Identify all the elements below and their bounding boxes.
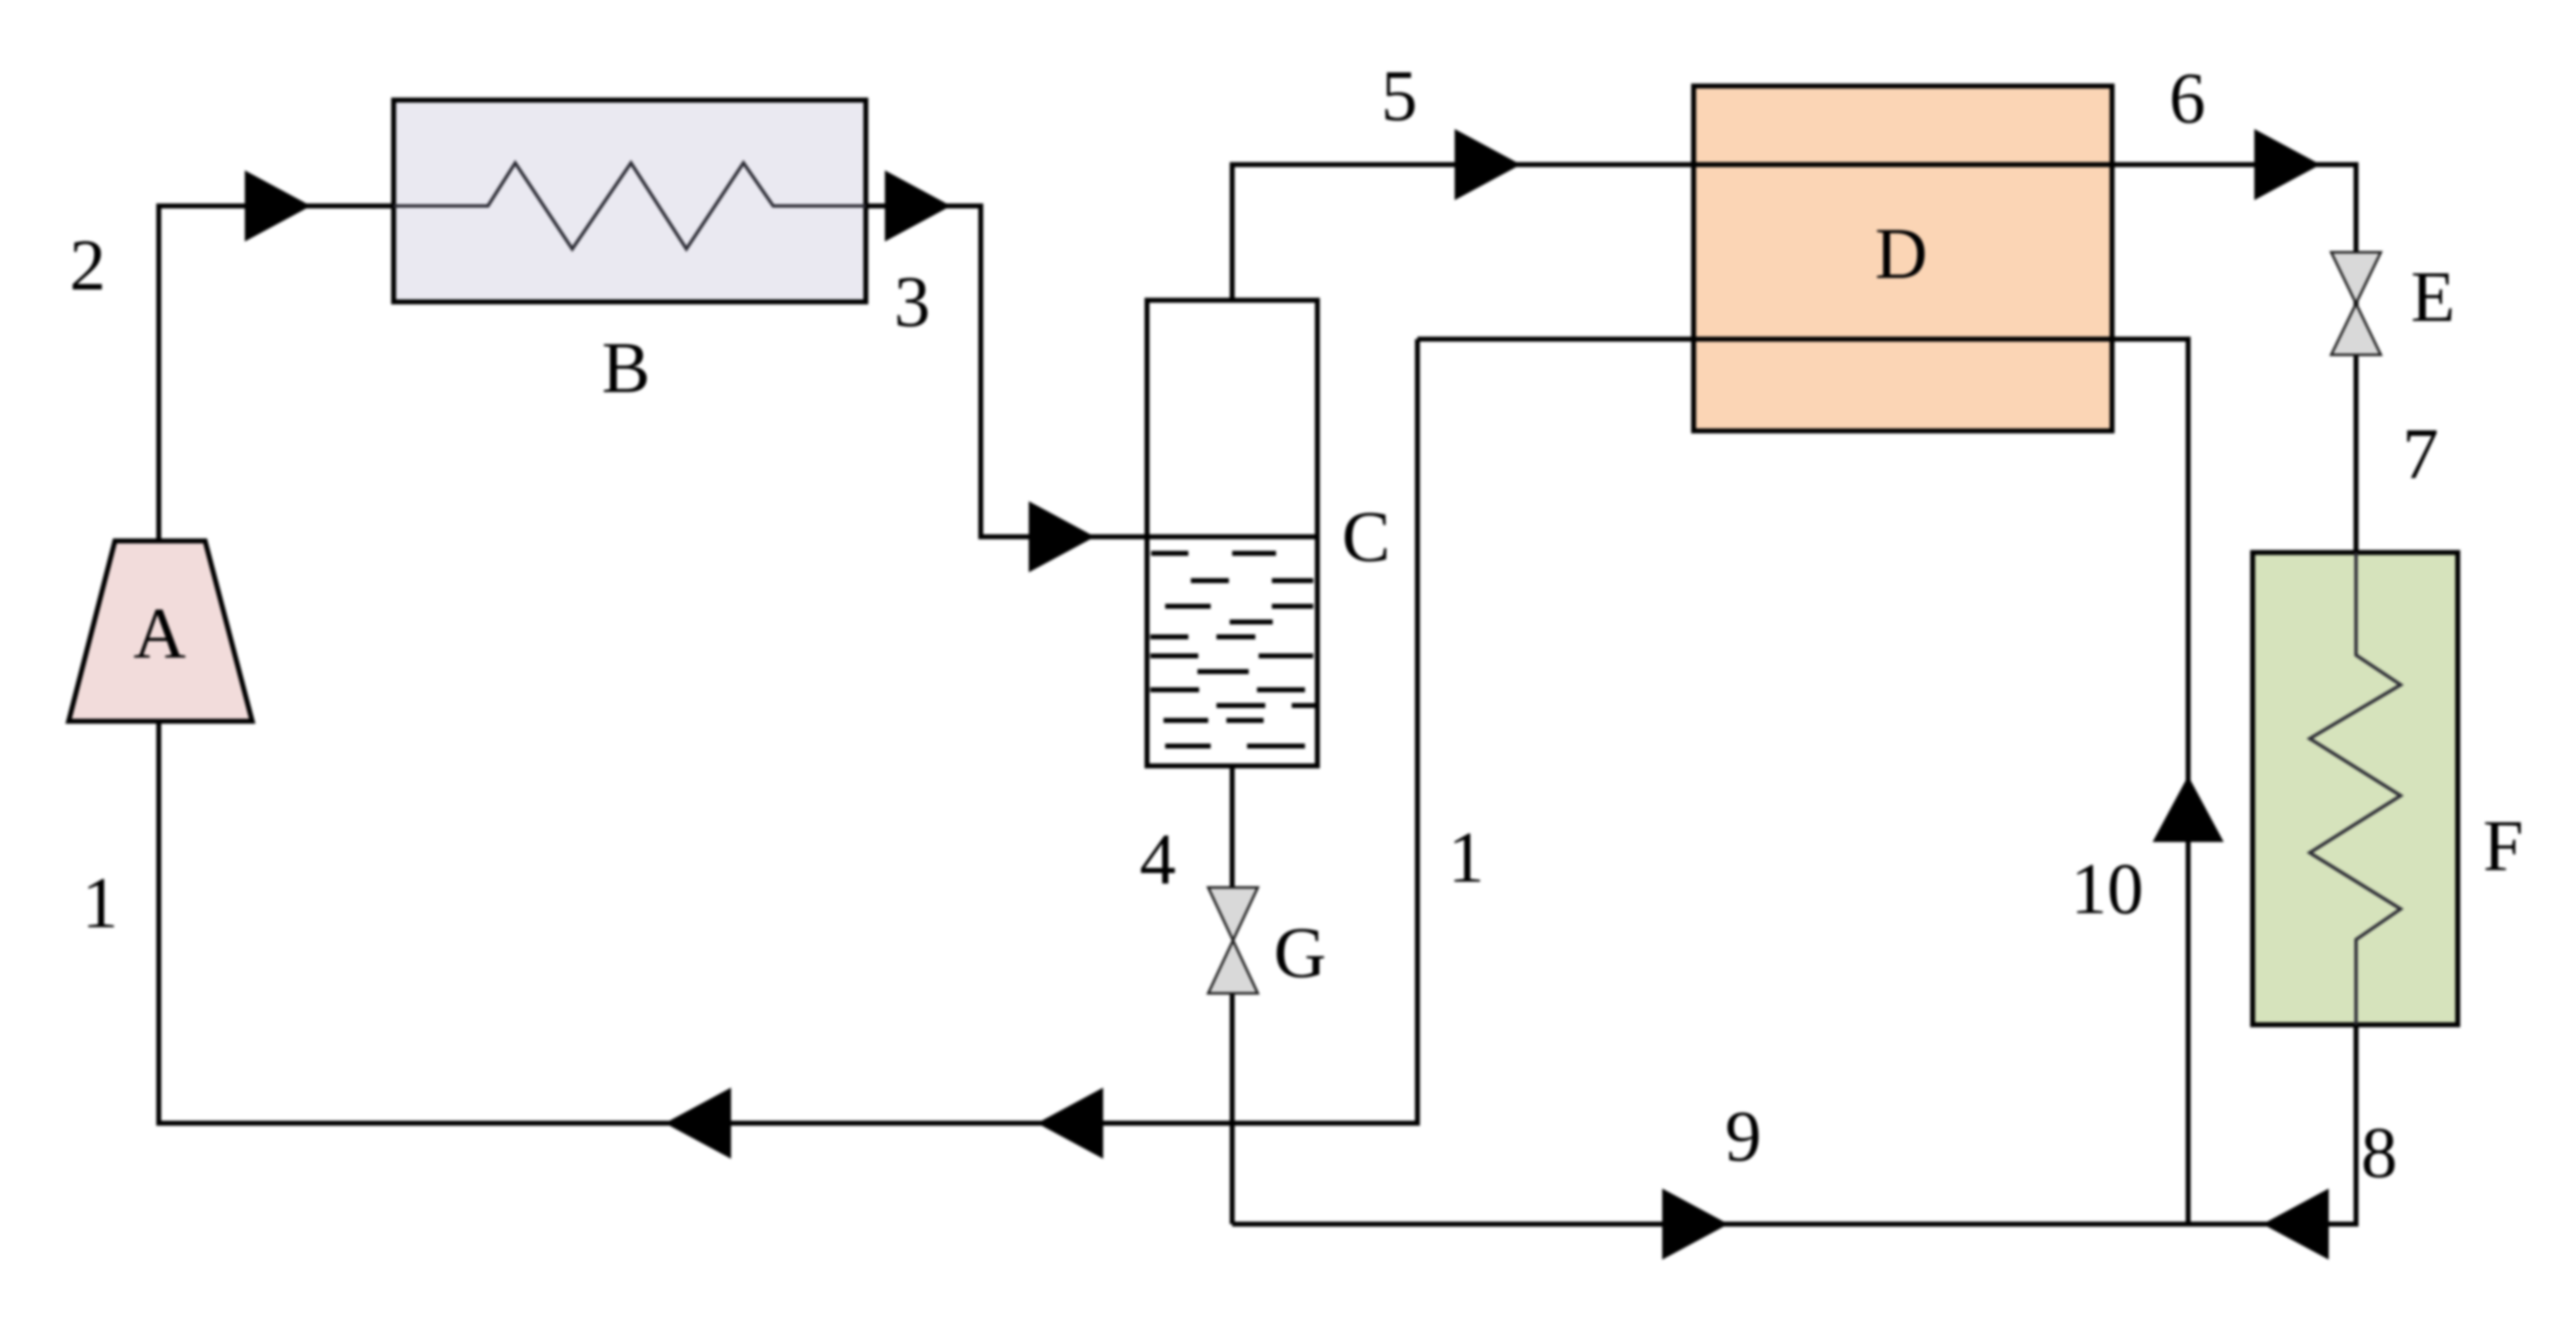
wire stream 4 from C bottom to valve G: [1230, 766, 1235, 887]
svg-text:2: 2: [69, 226, 106, 306]
wire stream 6/7 down through valve E to F: [2354, 162, 2359, 552]
arrow stream 9 (rightward): [1662, 1189, 1728, 1260]
arrow stream 2: [245, 170, 311, 242]
arrow stream 8 (leftward): [2263, 1189, 2329, 1260]
valve G: [1208, 887, 1258, 993]
svg-text:G: G: [1274, 913, 1326, 993]
svg-text:1: 1: [82, 863, 118, 944]
arrow stream 1 left outer: [665, 1088, 731, 1159]
valve E: [2331, 252, 2381, 355]
svg-text:F: F: [2483, 806, 2524, 887]
svg-text:7: 7: [2402, 414, 2439, 495]
wire stream 8 from F bottom to junction: [1232, 1025, 2356, 1224]
wire from valve G down to stream 9: [1230, 993, 1235, 1224]
svg-text:9: 9: [1725, 1097, 1761, 1177]
svg-text:6: 6: [2169, 59, 2206, 139]
heat exchanger D: [1694, 86, 2112, 431]
evaporator F: [2253, 552, 2458, 1025]
wire stream 2 horizontal into B: [156, 203, 394, 208]
svg-text:1: 1: [1448, 818, 1484, 898]
wire stream 1 down, left and up to compressor A: [159, 339, 1417, 1123]
wire stream 2 vertical from compressor A to corner: [156, 207, 161, 541]
compressor A: [69, 541, 252, 721]
wire stream 5 from C top through D: [1232, 165, 2356, 300]
svg-text:4: 4: [1140, 820, 1176, 900]
coil zigzag inside B: [394, 163, 866, 249]
wire stream 10 up and through D: [1417, 339, 2188, 1224]
coil zigzag inside F: [2310, 552, 2401, 1025]
arrow stream 5: [1455, 129, 1521, 200]
separator C vessel: [1147, 300, 1317, 766]
svg-text:3: 3: [894, 262, 930, 342]
arrow stream 6: [2254, 129, 2320, 200]
redraw stream 5 line over D: [1694, 162, 2112, 167]
arrow stream 1 left inner: [1037, 1088, 1103, 1159]
svg-text:5: 5: [1381, 56, 1417, 136]
svg-text:D: D: [1875, 214, 1928, 294]
arrow stream 3: [885, 170, 951, 242]
liquid level line in C: [1147, 534, 1317, 539]
svg-text:E: E: [2411, 257, 2455, 337]
liquid dashes in C: [1150, 553, 1316, 746]
svg-text:A: A: [133, 594, 186, 674]
svg-text:10: 10: [2071, 849, 2143, 930]
arrow stream 10 (upward): [2153, 776, 2224, 842]
svg-text:B: B: [602, 328, 651, 409]
arrow into separator C: [1029, 501, 1095, 572]
wire stream 3 from B to separator C: [866, 206, 1147, 537]
svg-text:8: 8: [2361, 1113, 2397, 1193]
svg-text:C: C: [1342, 497, 1391, 577]
heat exchanger B: [394, 100, 866, 302]
